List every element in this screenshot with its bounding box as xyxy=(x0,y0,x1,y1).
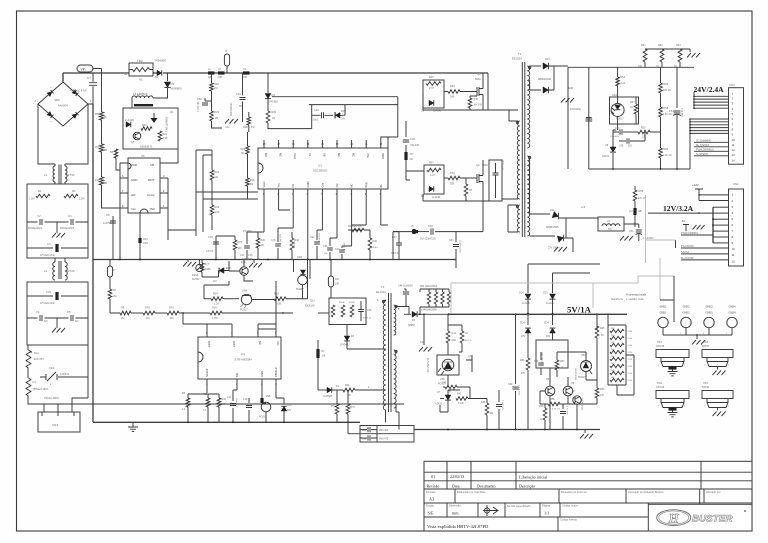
ground second hatch xyxy=(253,260,255,264)
svg-text:ET20: ET20 xyxy=(68,269,75,273)
svg-text:R23: R23 xyxy=(241,148,246,151)
wire 5V rectifier node xyxy=(449,313,628,315)
thermistor TH1 SCK 057 xyxy=(27,345,29,350)
svg-text:C54: C54 xyxy=(669,110,674,113)
capacitor C55 0.1uF 50V xyxy=(498,390,500,430)
svg-text:T2: T2 xyxy=(381,285,385,289)
capacitor C30 1kV-10P xyxy=(405,121,407,152)
connector CN4 xyxy=(38,412,80,432)
svg-text:PWM DIMMING: PWM DIMMING xyxy=(681,232,698,235)
resistor R54 47K xyxy=(596,313,598,330)
svg-text:47uF/50V: 47uF/50V xyxy=(319,232,321,242)
wire CN4 feeds xyxy=(28,377,404,412)
transistor Q3 5N60 xyxy=(477,74,483,111)
transformer T2 EE.1910 core xyxy=(389,293,392,412)
wire primary ground bus xyxy=(93,259,456,261)
svg-text:STR-A6059H: STR-A6059H xyxy=(234,358,251,362)
transistor Q6 xyxy=(133,132,141,140)
diode D3 MUR860 xyxy=(167,73,169,81)
ground pads hatch xyxy=(696,335,698,339)
diode D1 LF4552D xyxy=(327,387,332,393)
svg-text:0.1uF/50V: 0.1uF/50V xyxy=(518,385,520,396)
capacitor C16 xyxy=(278,228,293,260)
svg-text:AZ431: AZ431 xyxy=(435,403,443,406)
svg-text:R29: R29 xyxy=(274,293,279,296)
title cell tolerance symbol xyxy=(484,508,489,513)
resistor R7L xyxy=(335,404,339,414)
svg-text:R39: R39 xyxy=(429,76,434,79)
resistor R45 10K 1% xyxy=(469,96,471,98)
zener ZD6 1kV xyxy=(202,276,219,278)
resistor R75 xyxy=(346,404,350,414)
svg-text:J22: J22 xyxy=(335,278,340,281)
resistor R56 4.7K 1% xyxy=(540,391,548,404)
diode D8 LL4148 xyxy=(429,186,434,192)
svg-text:S8050/D331: S8050/D331 xyxy=(581,398,583,411)
svg-text:PC817: PC817 xyxy=(240,309,248,312)
wire Q3 frame xyxy=(423,73,518,110)
svg-text:R30: R30 xyxy=(142,124,147,127)
capacitor C44 1kV800V xyxy=(404,289,406,291)
svg-text:275Vac0.47uF: 275Vac0.47uF xyxy=(40,255,55,257)
capacitor C15 0.47uF xyxy=(215,236,217,260)
svg-text:C3: C3 xyxy=(47,242,51,246)
svg-text:C25: C25 xyxy=(367,309,372,312)
svg-text:0.33u2: 0.33u2 xyxy=(311,119,319,122)
svg-text:22/02/13: 22/02/13 xyxy=(450,474,464,479)
svg-text:ET10: ET10 xyxy=(68,173,75,177)
svg-text:CN3: CN3 xyxy=(729,83,735,87)
wire standby gray nets xyxy=(451,276,674,313)
diode D14 LL4148 xyxy=(525,294,531,299)
svg-text:D/ST: D/ST xyxy=(232,341,236,347)
diode D13 LL4148 xyxy=(550,294,556,299)
svg-text:R26: R26 xyxy=(250,179,255,182)
ground primary aux xyxy=(153,113,155,118)
svg-text:2.7K: 2.7K xyxy=(429,87,434,90)
svg-text:C22: C22 xyxy=(310,236,315,239)
svg-text:R15A: R15A xyxy=(339,301,345,304)
pin 1 U3 S/OCP xyxy=(206,379,208,390)
resistor R62 xyxy=(661,62,663,67)
svg-text:2.7M: 2.7M xyxy=(628,352,633,354)
svg-text:4A600V: 4A600V xyxy=(58,104,68,108)
svg-text:Q1: Q1 xyxy=(170,110,174,114)
svg-text:R2: R2 xyxy=(72,189,76,193)
wire U1 bottom nets xyxy=(264,196,381,260)
svg-text:R43: R43 xyxy=(457,393,462,396)
svg-text:FB: FB xyxy=(291,184,295,188)
svg-text:R13: R13 xyxy=(310,300,315,303)
resistor R20 47k xyxy=(247,232,264,260)
capacitor C29 2MV-473 xyxy=(368,435,370,440)
svg-text:GND: GND xyxy=(260,371,264,377)
resistor R43 0.1u xyxy=(456,397,468,401)
svg-text:C44 1kV800V: C44 1kV800V xyxy=(398,285,413,288)
svg-text:C46: C46 xyxy=(534,361,539,363)
svg-text:2M: 2M xyxy=(250,183,253,186)
node Vin xyxy=(77,65,93,72)
wire 24V bundle B xyxy=(689,119,691,133)
svg-text:Standby 5v: Standby 5v xyxy=(611,298,624,301)
winding T2 primary xyxy=(383,300,386,410)
wire 12V bracket pins 3-9 xyxy=(712,207,714,243)
capacitor C19 xyxy=(248,398,250,422)
pin 18 U1 NC xyxy=(263,140,265,148)
svg-text:VSL: VSL xyxy=(366,153,370,159)
svg-text:40V2.2u: 40V2.2u xyxy=(363,318,372,320)
svg-text:C2n: C2n xyxy=(420,341,425,344)
svg-text:R7B: R7B xyxy=(145,307,150,310)
pin 6 U1 OC xyxy=(336,189,338,196)
svg-text:4.7uF 50V: 4.7uF 50V xyxy=(280,233,282,244)
svg-text:16V: 16V xyxy=(546,336,551,338)
resistor R4 xyxy=(99,177,103,185)
svg-text:U3B: U3B xyxy=(242,290,247,293)
capacitor C22 xyxy=(317,230,322,260)
svg-text:TNK15A60D: TNK15A60D xyxy=(165,117,169,132)
ground bottom xyxy=(132,422,134,427)
svg-text:NC: NC xyxy=(75,320,79,323)
svg-text:LF4552D: LF4552D xyxy=(323,396,333,398)
pin 8 U1 Reg xyxy=(365,189,367,196)
svg-text:Vin: Vin xyxy=(81,67,86,71)
svg-text:5V/1A: 5V/1A xyxy=(567,304,592,314)
svg-text:GND2: GND2 xyxy=(683,306,691,309)
jumper J18 xyxy=(318,312,329,314)
wire U1 left nets xyxy=(196,150,212,236)
svg-text:10K: 10K xyxy=(638,65,643,68)
svg-text:Elaborado por José Reis: Elaborado por José Reis xyxy=(457,490,486,494)
svg-text:GND2: GND2 xyxy=(683,312,691,315)
svg-text:2M: 2M xyxy=(104,182,107,185)
svg-text:R19: R19 xyxy=(215,206,220,209)
capacitor C34 NC xyxy=(242,73,244,95)
wire 12V pins 1-2 xyxy=(699,195,729,201)
svg-text:Código motor: Código motor xyxy=(562,504,578,508)
wire D13 branch xyxy=(553,273,591,293)
svg-text:Dimensão: Dimensão xyxy=(449,504,461,508)
resistor R2B 1M xyxy=(247,117,251,125)
svg-text:C19: C19 xyxy=(243,398,248,401)
svg-text:MBR20100: MBR20100 xyxy=(538,77,552,81)
svg-text:Rx/50V: Rx/50V xyxy=(192,279,200,281)
svg-text:Descrição: Descrição xyxy=(519,483,535,488)
svg-text:TH1: TH1 xyxy=(34,351,40,355)
wire bottom bus right xyxy=(414,429,600,431)
svg-text:Liberado por: Liberado por xyxy=(706,490,721,494)
capacitor C56 4.7u50V xyxy=(562,404,564,430)
svg-text:HS4: HS4 xyxy=(703,382,708,385)
svg-text:VZ1: VZ1 xyxy=(49,366,55,370)
svg-text:R61: R61 xyxy=(641,44,646,47)
resistor R48 LD xyxy=(460,331,464,343)
resistor R23 1M xyxy=(246,146,250,154)
resistor R60 2.2K 1% xyxy=(659,148,663,158)
svg-text:450Vac0.47uF: 450Vac0.47uF xyxy=(70,89,87,93)
svg-text:1M: 1M xyxy=(146,317,149,320)
svg-text:1K: 1K xyxy=(656,65,659,68)
svg-text:R62: R62 xyxy=(658,44,663,47)
svg-text:1kV: 1kV xyxy=(213,281,217,283)
svg-text:100X18: 100X18 xyxy=(656,345,665,348)
svg-text:R21: R21 xyxy=(215,171,220,174)
capacitor C23 xyxy=(342,225,352,260)
svg-text:OBO: OBO xyxy=(381,153,385,159)
svg-text:2MV-302: 2MV-302 xyxy=(379,430,389,432)
winding T1 secondary xyxy=(527,66,529,148)
svg-text:C50: C50 xyxy=(197,97,202,101)
svg-text:12V/3.2A: 12V/3.2A xyxy=(663,204,694,213)
resistor R49 1k xyxy=(540,403,545,405)
ground L5 xyxy=(620,236,624,241)
jumper J12 xyxy=(634,215,636,218)
resistor R25 10K xyxy=(216,236,235,260)
svg-text:1M: 1M xyxy=(241,152,244,155)
svg-text:BF: BF xyxy=(379,184,383,188)
svg-text:U4B: U4B xyxy=(297,256,302,259)
svg-text:1/1: 1/1 xyxy=(544,511,549,516)
svg-text:BR: BR xyxy=(235,373,239,377)
svg-text:C2: C2 xyxy=(37,214,41,218)
wire 24V bottom bus xyxy=(589,119,690,169)
svg-text:Vista explodida HBTV-42L07FD: Vista explodida HBTV-42L07FD xyxy=(427,524,489,529)
pin 12 U1 NC xyxy=(351,140,353,148)
pin 2 U5 xyxy=(160,192,168,194)
svg-text:2.7M: 2.7M xyxy=(628,373,633,375)
svg-text:S1R61H51R0B: S1R61H51R0B xyxy=(421,310,437,312)
svg-text:4R: 4R xyxy=(469,189,472,192)
svg-text:J3B: J3B xyxy=(218,77,222,79)
svg-text:Se não especificado: Se não especificado xyxy=(507,504,531,508)
fuse F1 250Vac 3.15A/L xyxy=(27,368,29,378)
svg-text:C5: C5 xyxy=(67,310,71,314)
svg-text:13: 13 xyxy=(732,153,736,157)
diode D2 IN5406G xyxy=(157,70,162,76)
svg-text:3.6K: 3.6K xyxy=(215,211,220,214)
svg-text:U5: U5 xyxy=(141,154,145,158)
svg-text:R54: R54 xyxy=(600,388,605,391)
svg-text:R4: R4 xyxy=(95,178,99,182)
wire top bus xyxy=(63,73,488,82)
svg-text:U3: U3 xyxy=(241,352,245,356)
capacitor C3 275Vac0.47uF xyxy=(27,247,88,249)
transistor Q10 A1015 xyxy=(240,267,248,275)
svg-text:C43: C43 xyxy=(468,356,473,358)
resistor R46 470 xyxy=(527,347,529,358)
wire primary negative rail xyxy=(92,104,94,422)
svg-text:CN2: CN2 xyxy=(733,182,739,186)
svg-text:1K: 1K xyxy=(630,106,633,109)
svg-text:R34: R34 xyxy=(345,384,350,387)
capacitor C2 250Vac220pF xyxy=(40,219,42,225)
op-amp U3 STR-A6059H xyxy=(198,337,281,379)
svg-text:C56: C56 xyxy=(556,403,561,406)
svg-text:S 30 35K 33R: S 30 35K 33R xyxy=(542,352,544,366)
pin 11 U1 VSL xyxy=(365,140,367,148)
resistor R9 2M xyxy=(120,311,131,315)
svg-text:R22: R22 xyxy=(215,111,220,114)
svg-text:9K: 9K xyxy=(348,395,351,397)
svg-text:10K 1%: 10K 1% xyxy=(474,105,482,107)
svg-text:GND: GND xyxy=(131,178,137,182)
diode D01 MBR20100 xyxy=(530,65,541,67)
ground main hatch xyxy=(187,260,189,263)
svg-text:C11: C11 xyxy=(227,396,232,399)
svg-text:R07: R07 xyxy=(429,162,434,165)
svg-text:R63: R63 xyxy=(676,44,681,47)
svg-text:12K: 12K xyxy=(642,137,647,139)
svg-text:1R: 1R xyxy=(272,117,275,120)
resistor ladder bank R64-R71 2.7M xyxy=(608,325,626,385)
svg-text:R30: R30 xyxy=(272,111,277,114)
svg-text:R49: R49 xyxy=(539,405,544,408)
wire Q5 box xyxy=(536,340,568,368)
svg-text:mm: mm xyxy=(452,511,459,516)
svg-text:CB: CB xyxy=(150,163,154,167)
svg-text:Comp: Comp xyxy=(147,193,155,197)
svg-text:1kV-220pFCH1: 1kV-220pFCH1 xyxy=(420,239,436,241)
svg-text:W68K: W68K xyxy=(205,269,212,271)
pin 5 U1 Css xyxy=(321,189,323,196)
svg-text:250Vac220pF: 250Vac220pF xyxy=(60,228,75,230)
svg-text:12: 12 xyxy=(732,259,736,263)
snubber box R07 D8 xyxy=(424,165,444,194)
resistor R40 30R xyxy=(444,91,448,93)
jumper J3 xyxy=(218,71,225,74)
svg-text:2.7M: 2.7M xyxy=(628,359,633,361)
svg-text:27K 1%: 27K 1% xyxy=(638,198,646,200)
ground 24V top xyxy=(680,49,690,52)
capacitor C26 2MV-302 xyxy=(368,427,370,432)
wire 24V bundle A xyxy=(693,92,695,108)
svg-text:22uF/50V: 22uF/50V xyxy=(235,398,237,408)
svg-text:14D621: 14D621 xyxy=(60,372,70,376)
pin 14 U1 VB xyxy=(321,140,323,148)
resistor R13 800K1/W xyxy=(331,305,335,317)
wire D14 branch xyxy=(528,264,600,293)
svg-text:C13: C13 xyxy=(248,254,253,257)
shunt regulator U7 AZ431 xyxy=(440,398,444,400)
svg-text:1M: 1M xyxy=(104,149,107,152)
resistor R57 1K xyxy=(634,104,638,114)
capacitor C8 1uF/50V xyxy=(112,216,114,260)
jumper J2 xyxy=(208,71,215,74)
opto U3B PC817 xyxy=(241,294,251,304)
svg-text:1kV-22JpF: 1kV-22JpF xyxy=(503,158,505,170)
transistor Q5 S8050 xyxy=(545,386,555,396)
svg-text:Revisado por Luis Luz: Revisado por Luis Luz xyxy=(561,490,587,494)
svg-text:450V/100uF: 450V/100uF xyxy=(230,102,233,116)
svg-text:L2: L2 xyxy=(44,269,48,273)
capacitor C2n ground xyxy=(423,314,425,345)
wire 24V rail caps xyxy=(568,67,694,169)
wire 12V main line xyxy=(648,212,713,214)
wire U5 left rail xyxy=(120,163,128,260)
svg-text:22V: 22V xyxy=(287,410,292,412)
transistor Q4 5N60 xyxy=(477,160,483,201)
resistor R26 2M xyxy=(246,178,250,186)
diode D02 MBR20100 xyxy=(530,80,541,90)
svg-text:R46: R46 xyxy=(520,359,525,362)
svg-text:0.1uF: 0.1uF xyxy=(458,403,464,405)
svg-text:HS3: HS3 xyxy=(703,341,708,344)
svg-text:R36: R36 xyxy=(373,240,378,243)
pin 1 U1 Vsen xyxy=(263,189,265,196)
svg-text:10K: 10K xyxy=(238,247,243,250)
svg-text:GND1: GND1 xyxy=(660,312,668,315)
svg-text:R17: R17 xyxy=(205,263,210,266)
ground filter 1 xyxy=(56,222,58,233)
svg-text:NC: NC xyxy=(222,404,226,406)
svg-text:C15: C15 xyxy=(208,235,213,239)
svg-text:NC: NC xyxy=(139,78,143,82)
ground filter 2 xyxy=(56,318,58,328)
svg-text:10: 10 xyxy=(732,138,736,142)
svg-text:ZCD: ZCD xyxy=(131,163,137,167)
svg-text:C53: C53 xyxy=(629,230,634,233)
capacitor C5 NC xyxy=(71,315,73,321)
winding T2 secondary xyxy=(394,305,396,335)
svg-text:H: H xyxy=(668,511,680,526)
svg-text:Q3: Q3 xyxy=(477,72,481,76)
svg-text:0.16V/1M: 0.16V/1M xyxy=(198,102,200,112)
bridge rectifier D5 4A600V xyxy=(38,82,88,126)
resistor R8 1R xyxy=(114,149,118,158)
svg-text:1.2M: 1.2M xyxy=(212,317,217,320)
transformer T1 EE1D29 core xyxy=(522,62,525,237)
capacitor C50 xyxy=(205,91,212,101)
svg-text:C30: C30 xyxy=(410,137,415,141)
svg-text:D11: D11 xyxy=(550,208,555,212)
wire ladder out xyxy=(617,355,634,395)
svg-text:-5V: -5V xyxy=(681,219,685,223)
svg-text:R24: R24 xyxy=(213,293,218,296)
svg-text:10: 10 xyxy=(732,247,736,251)
resistor R19b 1.2M xyxy=(210,311,222,315)
svg-text:R59: R59 xyxy=(664,83,669,86)
svg-text:GND1: GND1 xyxy=(660,306,668,309)
svg-text:CN4: CN4 xyxy=(52,423,58,427)
opto U4A PC817 xyxy=(610,97,639,124)
svg-text:NC: NC xyxy=(44,320,48,323)
resistor R32 680 1% xyxy=(291,232,293,260)
pin 10 U1 OBO xyxy=(380,140,382,148)
capacitor C20 0.33u2 xyxy=(322,112,324,118)
svg-text:PC817: PC817 xyxy=(578,376,586,379)
lamp J7 xyxy=(109,260,111,267)
svg-text:+12V: +12V xyxy=(692,183,699,187)
resistor R58 1.5K 1% xyxy=(659,107,663,117)
diode D4 LF4148G xyxy=(267,73,269,93)
svg-text:J2B: J2B xyxy=(335,284,339,286)
resistor R6b xyxy=(187,394,189,398)
svg-text:R42: R42 xyxy=(442,382,447,385)
title block frame xyxy=(424,461,752,531)
svg-text:U4A: U4A xyxy=(612,93,617,97)
opto U6A PC817 xyxy=(437,355,459,375)
pin 7 U3 D/ST xyxy=(231,329,233,337)
svg-text:0.1uF/1000V: 0.1uF/1000V xyxy=(459,240,461,253)
svg-text:4K 1%: 4K 1% xyxy=(465,340,471,342)
opto U4B PC817 xyxy=(294,260,311,269)
wire bottom bus left xyxy=(93,421,360,423)
svg-text:D01: D01 xyxy=(545,57,550,61)
diode D9 LL4148 xyxy=(429,100,434,106)
svg-text:NC: NC xyxy=(337,153,341,157)
opto U5A PC817 xyxy=(581,361,592,372)
svg-text:60X30: 60X30 xyxy=(702,386,710,389)
